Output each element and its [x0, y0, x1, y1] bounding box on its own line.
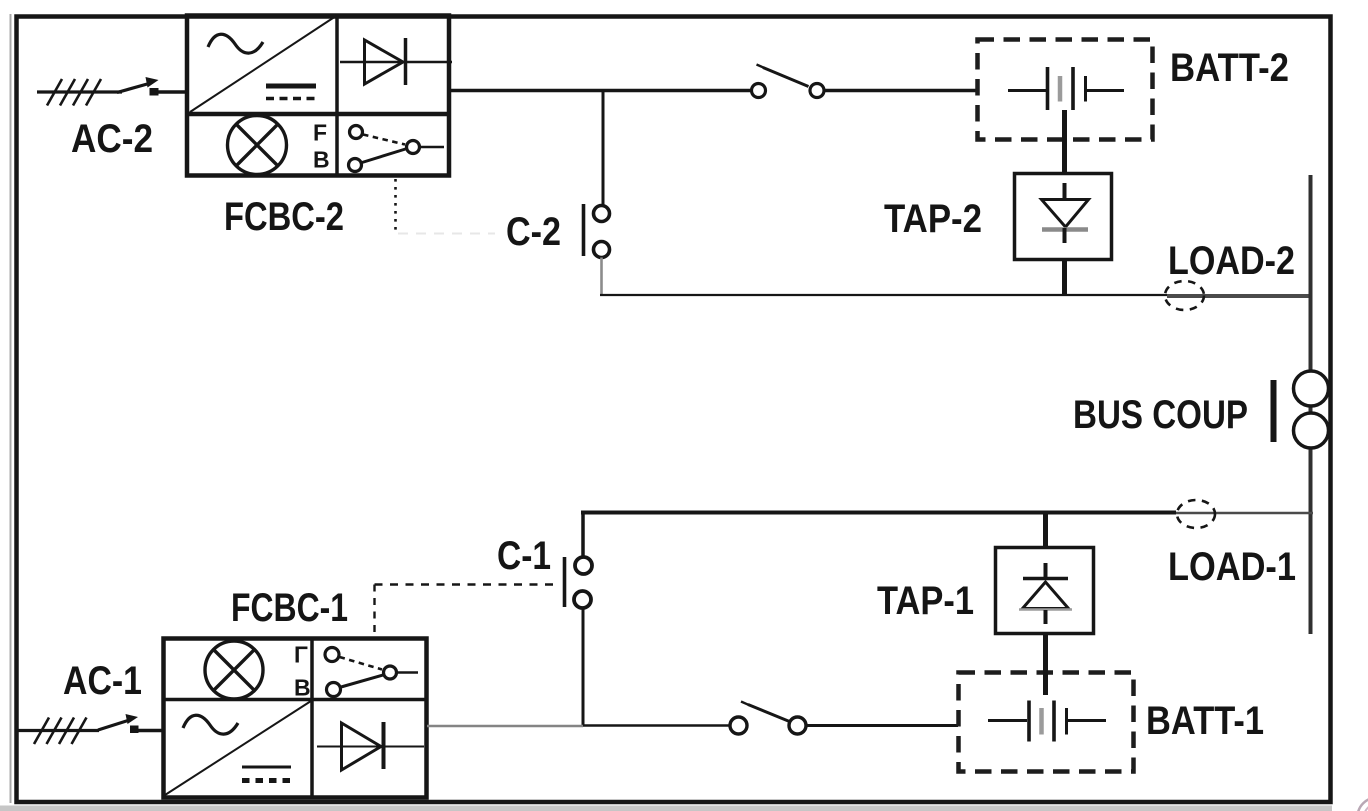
battery BATT-2 cell symbol: [1008, 67, 1124, 110]
wire FCBC-2 output to switch: [449, 89, 752, 93]
wire LOAD-1 feeder right segment: [1176, 512, 1313, 515]
wire BATT-2 to TAP-2: [1062, 110, 1067, 174]
wire LOAD-1 feeder: [581, 511, 1176, 515]
svg-text:BATT-2: BATT-2: [1170, 46, 1289, 90]
svg-text:C-2: C-2: [506, 210, 561, 254]
wire TAP-1 to BATT-1: [1043, 634, 1048, 696]
diode unit TAP-2: [1015, 174, 1112, 260]
float/boost selector switch in FCBC-1: [325, 648, 418, 697]
control line below FCBC-2 (dotted): [394, 179, 397, 234]
svg-text:B: B: [294, 675, 311, 701]
battery BATT-1 cell symbol: [988, 701, 1106, 742]
svg-text:AC-1: AC-1: [63, 659, 142, 703]
diode unit TAP-1: [996, 548, 1094, 634]
bus coupler BUS COUP: [1274, 371, 1329, 448]
svg-text:BUS COUP: BUS COUP: [1073, 393, 1248, 437]
disconnect switch on BATT-1 branch: [730, 702, 806, 735]
wire C-2 to LOAD-2 bus: [600, 258, 603, 297]
diode symbol in FCBC-2: [340, 38, 452, 85]
svg-text:TAP-2: TAP-2: [884, 197, 982, 241]
lamp indicator in FCBC-1: [205, 641, 263, 699]
contactor C-2: [584, 204, 610, 258]
AC-2 source hatch marks: [47, 79, 101, 106]
DC bus bar (right vertical): [1309, 175, 1313, 634]
svg-text:LOAD-1: LOAD-1: [1168, 545, 1296, 589]
charger FCBC-2 outer box: [187, 16, 449, 176]
node junction to C-2: [602, 91, 605, 207]
svg-text:Γ: Γ: [294, 642, 308, 668]
disconnect switch on AC-1 input: [98, 714, 164, 733]
disconnect switch on BATT-2 branch: [752, 65, 825, 98]
svg-text:BATT-1: BATT-1: [1146, 699, 1264, 743]
control line FCBC-1 to C-1 (dashed): [375, 585, 558, 635]
AC/DC converter symbol in FCBC-1: [165, 701, 311, 795]
wire AC-2 feeder: [37, 90, 122, 93]
svg-text:C-1: C-1: [497, 534, 551, 578]
wire TAP-2 to LOAD-2 bus: [1062, 260, 1067, 297]
wire LOAD-1 bus to TAP-1: [1043, 512, 1048, 548]
AC-1 source hatch marks: [34, 718, 87, 745]
diode symbol in FCBC-1: [317, 722, 424, 770]
charger FCBC-1 outer box: [164, 639, 427, 798]
svg-text:F: F: [313, 120, 327, 146]
svg-text:FCBC-2: FCBC-2: [224, 195, 344, 239]
wire C-1 down to DC link: [582, 608, 585, 726]
wire LOAD-2 feeder: [600, 294, 1167, 296]
wire switch to BATT-2: [825, 89, 978, 93]
svg-text:LOAD-2: LOAD-2: [1168, 239, 1295, 283]
svg-text:B: B: [313, 147, 330, 173]
float/boost selector switch in FCBC-2: [349, 126, 445, 172]
disconnect switch on AC-2 input: [117, 77, 186, 96]
battery BATT-2 (dashed enclosure): [978, 40, 1153, 140]
control line FCBC-2 to C-2 (faint): [398, 233, 495, 235]
AC/DC converter symbol in FCBC-2: [190, 16, 336, 112]
CT on LOAD-1 feeder (dashed circle): [1177, 500, 1215, 528]
wire switch to BATT-1: [807, 724, 959, 727]
svg-text:AC-2: AC-2: [71, 117, 153, 161]
lamp indicator in FCBC-2: [228, 116, 287, 175]
wire FCBC-1 output (gray): [427, 725, 583, 727]
CT on LOAD-2 feeder (dashed circle): [1165, 281, 1204, 310]
battery BATT-1 (dashed enclosure): [959, 673, 1134, 772]
svg-text:FCBC-1: FCBC-1: [231, 586, 348, 630]
svg-text:TAP-1: TAP-1: [877, 579, 974, 623]
wire DC link to switch: [583, 724, 730, 727]
contactor C-1: [565, 557, 593, 608]
wire down to contactor C-1: [581, 511, 585, 558]
wire LOAD-2 feeder right segment: [1167, 294, 1312, 298]
wire AC-1 feeder: [16, 729, 99, 732]
